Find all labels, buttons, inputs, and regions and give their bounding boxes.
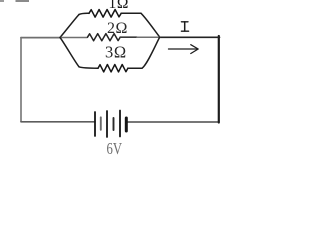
svg-text:1Ω: 1Ω — [109, 0, 129, 12]
current arrow for I — [169, 48, 198, 50]
svg-text:6V: 6V — [107, 139, 123, 158]
wire: bottom right (from battery) — [128, 121, 220, 123]
wire: left horizontal from left vertical to node A — [21, 37, 60, 39]
wire: top branch right lead — [121, 12, 141, 14]
battery B1: plate long 3 — [119, 111, 121, 137]
wire: node A to top branch — [60, 15, 79, 38]
resistor R1 1-ohm zigzag — [89, 10, 121, 18]
resistor R3 3-ohm zigzag — [98, 64, 128, 71]
wire: node A to bottom branch — [60, 38, 79, 67]
wire: left vertical — [20, 38, 22, 122]
wire: middle branch right lead — [120, 36, 137, 38]
battery B1: plate long 2 — [106, 111, 108, 137]
stray scan mark top-left corner — [0, 0, 4, 2]
svg-text:2Ω: 2Ω — [107, 20, 128, 37]
wire: node B to right vertical — [160, 36, 220, 38]
label I (current) drawn as serif strokes — [181, 22, 188, 31]
wire: top branch down to node B — [141, 13, 160, 37]
battery B1: plate long 1 — [94, 112, 96, 136]
battery B1: plate short 3 (thick terminal) — [125, 118, 128, 131]
wire: middle branch left lead — [60, 37, 87, 39]
stray scan mark top edge — [16, 0, 30, 2]
wire: bottom branch left lead — [79, 67, 98, 68]
wire: bottom branch up to node B — [142, 38, 160, 69]
wire: top branch left lead — [79, 13, 89, 14]
wire: right vertical — [218, 36, 220, 123]
wire: bottom branch right lead — [128, 67, 142, 69]
wire: bottom left (to battery) — [21, 121, 95, 123]
resistor R2 2-ohm zigzag — [88, 34, 121, 41]
svg-text:3Ω: 3Ω — [105, 43, 127, 62]
battery B1: plate short 2 — [113, 118, 115, 130]
battery B1: plate short 1 — [100, 117, 102, 130]
